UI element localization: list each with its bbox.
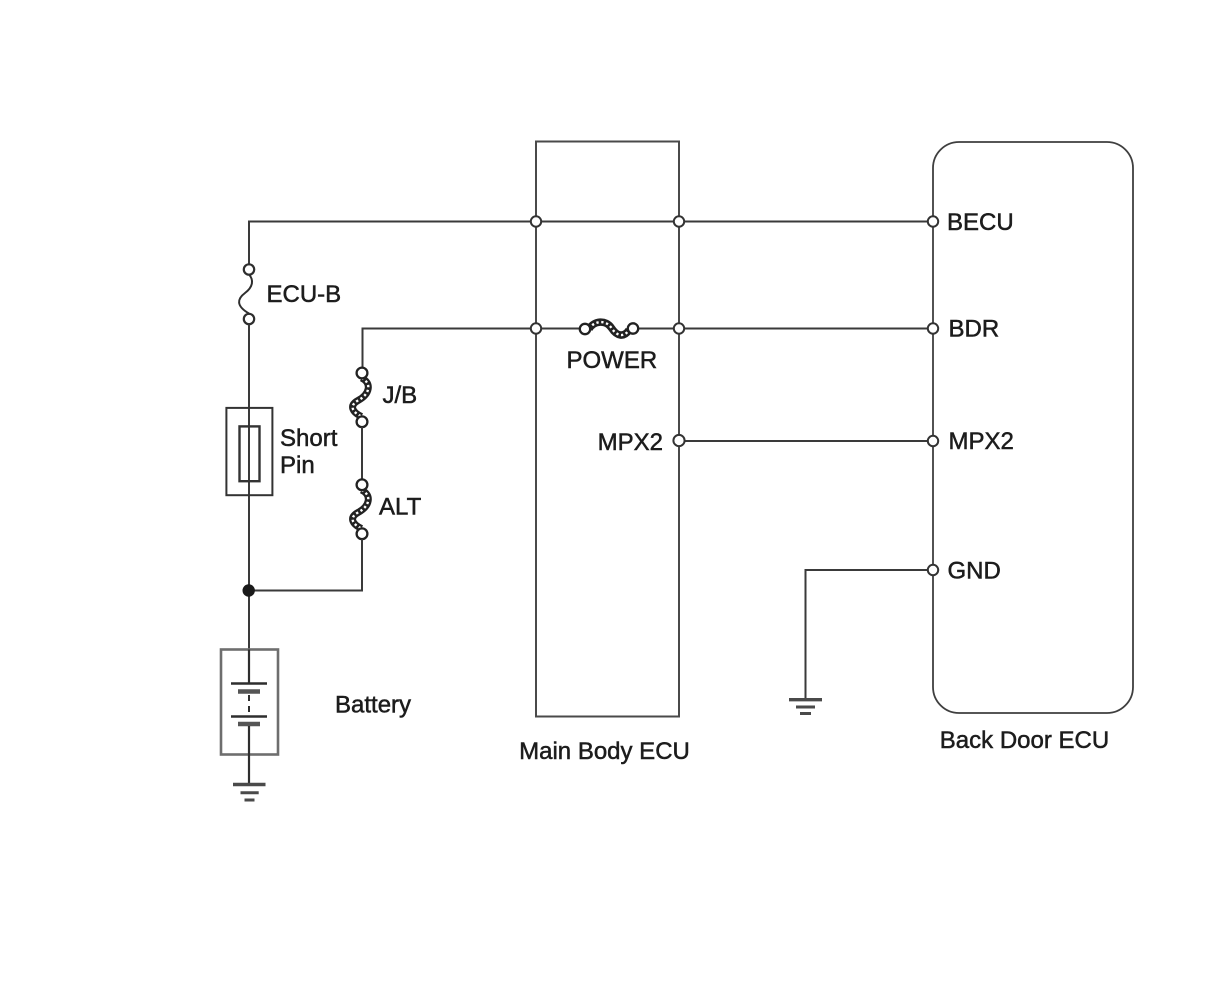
fusible link ALT bbox=[353, 479, 369, 539]
terminal pin Back Door MPX2 bbox=[928, 436, 938, 446]
wire top BECU net bbox=[249, 222, 933, 265]
terminal pin Main Body right BDR bbox=[674, 323, 684, 333]
terminal pin Main Body left BECU bbox=[531, 216, 541, 226]
short pin SP bbox=[226, 408, 272, 495]
svg-text:Battery: Battery bbox=[335, 692, 411, 719]
terminal pin Back Door BECU bbox=[928, 216, 938, 226]
svg-text:GND: GND bbox=[948, 558, 1001, 585]
fusible link J/B bbox=[353, 368, 369, 428]
svg-text:ECU-B: ECU-B bbox=[267, 281, 342, 308]
terminal pin Back Door BDR bbox=[928, 323, 938, 333]
svg-text:Pin: Pin bbox=[280, 452, 315, 479]
wire junction horizontal bbox=[249, 590, 362, 592]
svg-text:J/B: J/B bbox=[383, 382, 418, 409]
junction node bbox=[243, 584, 255, 596]
terminal pin Main Body left BDR bbox=[531, 323, 541, 333]
terminal pin Main Body MPX2 bbox=[673, 435, 684, 446]
fuse ECU-B bbox=[239, 264, 254, 324]
fuse POWER bbox=[580, 322, 638, 335]
wire GND net bbox=[806, 570, 934, 699]
Main Body ECU box bbox=[536, 142, 679, 717]
svg-text:MPX2: MPX2 bbox=[949, 428, 1014, 455]
svg-text:Back Door ECU: Back Door ECU bbox=[940, 727, 1109, 754]
svg-text:ALT: ALT bbox=[379, 494, 422, 521]
terminal pin Back Door GND bbox=[928, 565, 938, 575]
svg-text:BECU: BECU bbox=[947, 209, 1014, 236]
battery bbox=[221, 650, 278, 755]
wire MPX2 net bbox=[679, 440, 933, 442]
ground (battery) bbox=[233, 785, 266, 801]
wire BDR net right of POWER fuse bbox=[633, 328, 933, 330]
ground (back door) bbox=[789, 700, 822, 714]
svg-text:Short: Short bbox=[280, 425, 338, 452]
terminal pin Main Body right BECU bbox=[674, 216, 684, 226]
wire left vertical to battery bbox=[248, 324, 250, 650]
wire ALT to junction bbox=[361, 539, 363, 591]
wire BDR net from J/B branch bbox=[363, 329, 586, 369]
Back Door ECU box bbox=[933, 142, 1133, 713]
wire between J/B and ALT bbox=[361, 427, 363, 480]
svg-text:MPX2: MPX2 bbox=[598, 429, 663, 456]
svg-text:Main Body ECU: Main Body ECU bbox=[519, 738, 690, 765]
svg-text:POWER: POWER bbox=[567, 347, 658, 374]
svg-text:BDR: BDR bbox=[949, 316, 1000, 343]
wire battery to ground bbox=[248, 755, 250, 785]
